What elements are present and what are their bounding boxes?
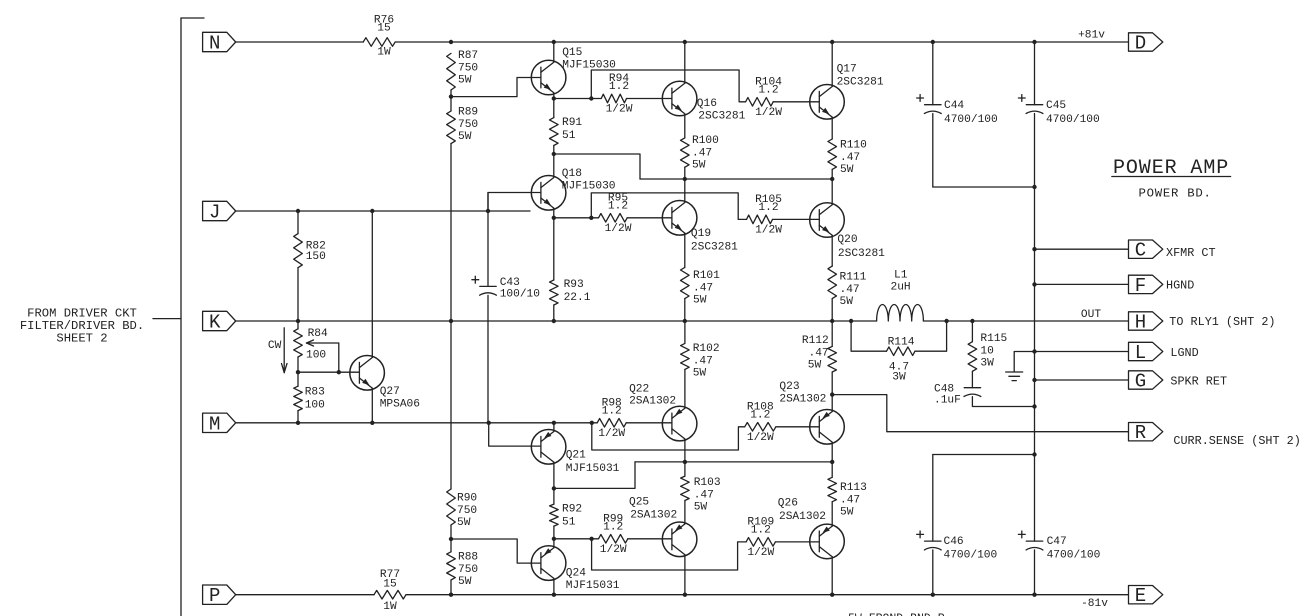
svg-text:Q24: Q24: [566, 568, 586, 580]
svg-text:5W: 5W: [840, 296, 854, 308]
svg-text:5W: 5W: [693, 368, 707, 380]
svg-text:22.1: 22.1: [564, 292, 591, 304]
svg-text:N: N: [209, 33, 220, 55]
svg-text:2SA1302: 2SA1302: [630, 510, 677, 522]
svg-text:R88: R88: [458, 552, 478, 564]
svg-text:150: 150: [306, 251, 326, 263]
svg-text:R102: R102: [693, 343, 720, 355]
svg-text:1.2: 1.2: [609, 81, 629, 93]
svg-text:51: 51: [562, 517, 576, 529]
svg-text:5W: 5W: [458, 576, 472, 588]
svg-text:750: 750: [457, 505, 477, 517]
svg-text:R100: R100: [692, 135, 719, 147]
svg-text:R110: R110: [840, 140, 867, 152]
svg-text:C: C: [1135, 240, 1146, 262]
svg-text:L: L: [1135, 342, 1146, 364]
svg-text:1W: 1W: [383, 601, 397, 613]
svg-text:2SA1302: 2SA1302: [779, 511, 826, 523]
svg-text:R83: R83: [305, 387, 325, 399]
svg-text:POWER BD.: POWER BD.: [1139, 187, 1212, 201]
svg-text:2SC3281: 2SC3281: [691, 242, 738, 254]
svg-text:HGND: HGND: [1166, 279, 1194, 293]
svg-text:R89: R89: [458, 107, 478, 119]
svg-text:R114: R114: [888, 337, 915, 349]
svg-text:1.2: 1.2: [758, 84, 778, 96]
svg-text:Q18: Q18: [562, 168, 582, 180]
svg-text:Q19: Q19: [691, 228, 711, 240]
svg-text:XFMR CT: XFMR CT: [1166, 246, 1216, 260]
svg-text:4700/100: 4700/100: [1046, 114, 1100, 126]
svg-text:SPKR RET: SPKR RET: [1170, 375, 1227, 389]
svg-text:Q23: Q23: [779, 381, 799, 393]
svg-text:Q26: Q26: [778, 498, 798, 510]
svg-text:C47: C47: [1047, 536, 1067, 548]
svg-text:.1uF: .1uF: [934, 395, 961, 407]
svg-text:.47: .47: [694, 489, 714, 501]
svg-text:1/2W: 1/2W: [606, 104, 633, 116]
svg-text:R115: R115: [980, 333, 1007, 345]
svg-text:3W: 3W: [980, 358, 994, 370]
svg-text:R92: R92: [562, 504, 582, 516]
svg-text:R93: R93: [564, 279, 584, 291]
svg-text:R90: R90: [457, 493, 477, 505]
svg-text:MPSA06: MPSA06: [380, 399, 420, 411]
svg-text:MJF15031: MJF15031: [566, 463, 620, 475]
svg-text:1/2W: 1/2W: [747, 547, 774, 559]
svg-text:1/2W: 1/2W: [600, 544, 627, 556]
svg-text:Q20: Q20: [837, 234, 857, 246]
svg-text:4700/100: 4700/100: [944, 114, 998, 126]
svg-text:C44: C44: [944, 100, 964, 112]
svg-text:1.2: 1.2: [608, 200, 628, 212]
svg-text:1.2: 1.2: [602, 405, 622, 417]
svg-text:R113: R113: [840, 482, 867, 494]
svg-text:R87: R87: [458, 50, 478, 62]
svg-text:R101: R101: [693, 270, 720, 282]
svg-text:TO RLY1 (SHT 2): TO RLY1 (SHT 2): [1169, 315, 1275, 329]
svg-text:OUT: OUT: [1081, 309, 1101, 321]
svg-text:2SC3281: 2SC3281: [838, 248, 885, 260]
svg-text:Q16: Q16: [697, 98, 717, 110]
svg-text:51: 51: [562, 130, 576, 142]
svg-text:10: 10: [980, 345, 994, 357]
svg-text:750: 750: [458, 564, 478, 576]
svg-text:R84: R84: [308, 328, 328, 340]
svg-text:15: 15: [377, 23, 390, 35]
svg-text:5W: 5W: [457, 517, 471, 529]
svg-text:Q22: Q22: [629, 384, 649, 396]
svg-text:R: R: [1135, 422, 1146, 444]
svg-text:D: D: [1135, 33, 1146, 55]
svg-text:2SA1302: 2SA1302: [629, 396, 676, 408]
svg-text:CW: CW: [268, 340, 282, 352]
svg-text:CURR.SENSE (SHT 2): CURR.SENSE (SHT 2): [1173, 434, 1300, 448]
svg-text:100: 100: [306, 350, 326, 362]
svg-text:750: 750: [458, 119, 478, 131]
svg-text:1.2: 1.2: [751, 524, 771, 536]
svg-text:Q21: Q21: [566, 450, 586, 462]
svg-text:C45: C45: [1046, 100, 1066, 112]
svg-text:R112: R112: [802, 335, 829, 347]
svg-text:100/10: 100/10: [500, 289, 541, 301]
svg-text:K: K: [209, 312, 221, 334]
svg-text:C43: C43: [500, 277, 520, 289]
svg-text:.47: .47: [840, 284, 860, 296]
svg-text:2SC3281: 2SC3281: [698, 111, 745, 123]
svg-text:Q17: Q17: [837, 64, 857, 76]
svg-text:5W: 5W: [840, 164, 854, 176]
svg-text:1.2: 1.2: [603, 521, 623, 533]
svg-text:R91: R91: [562, 117, 582, 129]
svg-text:.47: .47: [840, 494, 860, 506]
svg-text:C46: C46: [944, 536, 964, 548]
svg-text:2SA1302: 2SA1302: [779, 394, 826, 406]
svg-text:3W: 3W: [892, 372, 906, 384]
svg-text:MJF15031: MJF15031: [566, 580, 620, 592]
svg-text:5W: 5W: [458, 75, 472, 87]
svg-text:5W: 5W: [692, 160, 706, 172]
svg-text:1.2: 1.2: [750, 409, 770, 421]
svg-text:E: E: [1135, 585, 1146, 607]
svg-text:M: M: [209, 413, 220, 435]
svg-text:750: 750: [458, 62, 478, 74]
svg-text:1/2W: 1/2W: [598, 428, 625, 440]
svg-text:.47: .47: [693, 282, 713, 294]
svg-text:MJF15030: MJF15030: [562, 181, 616, 193]
svg-text:G: G: [1135, 371, 1146, 393]
svg-text:.47: .47: [809, 348, 829, 360]
svg-text:.47: .47: [693, 355, 713, 367]
svg-text:P: P: [209, 585, 220, 607]
svg-text:H: H: [1135, 312, 1146, 334]
svg-text:LGND: LGND: [1170, 346, 1198, 360]
svg-text:5W: 5W: [693, 295, 707, 307]
svg-text:1/2W: 1/2W: [747, 432, 774, 444]
svg-text:5W FROND BND P: 5W FROND BND P: [848, 613, 945, 616]
svg-text:Q15: Q15: [562, 47, 582, 59]
svg-text:+81v: +81v: [1078, 30, 1105, 42]
svg-text:R103: R103: [694, 477, 721, 489]
svg-text:1.2: 1.2: [758, 202, 778, 214]
svg-text:.47: .47: [840, 152, 860, 164]
svg-text:5W: 5W: [840, 507, 854, 519]
svg-text:MJF15030: MJF15030: [562, 60, 616, 72]
svg-text:5W: 5W: [808, 360, 822, 372]
svg-text:.47: .47: [692, 147, 712, 159]
svg-text:L1: L1: [894, 270, 908, 282]
svg-text:F: F: [1135, 275, 1146, 297]
svg-text:2uH: 2uH: [891, 282, 911, 294]
svg-text:2SC3281: 2SC3281: [837, 77, 884, 89]
svg-text:1/2W: 1/2W: [605, 223, 632, 235]
svg-text:1/2W: 1/2W: [755, 107, 782, 119]
svg-text:-81v: -81v: [1081, 598, 1108, 610]
svg-text:5W: 5W: [458, 131, 472, 143]
svg-text:1/2W: 1/2W: [755, 225, 782, 237]
svg-text:1W: 1W: [377, 47, 391, 59]
svg-text:SHEET 2: SHEET 2: [56, 332, 107, 346]
svg-text:J: J: [209, 202, 220, 224]
svg-text:15: 15: [383, 579, 396, 591]
svg-text:4700/100: 4700/100: [1047, 549, 1101, 561]
svg-text:4700/100: 4700/100: [944, 549, 998, 561]
svg-text:Q27: Q27: [380, 386, 400, 398]
svg-text:Q25: Q25: [629, 497, 649, 509]
svg-text:100: 100: [305, 400, 325, 412]
svg-text:5W: 5W: [694, 502, 708, 514]
svg-text:R111: R111: [840, 272, 867, 284]
